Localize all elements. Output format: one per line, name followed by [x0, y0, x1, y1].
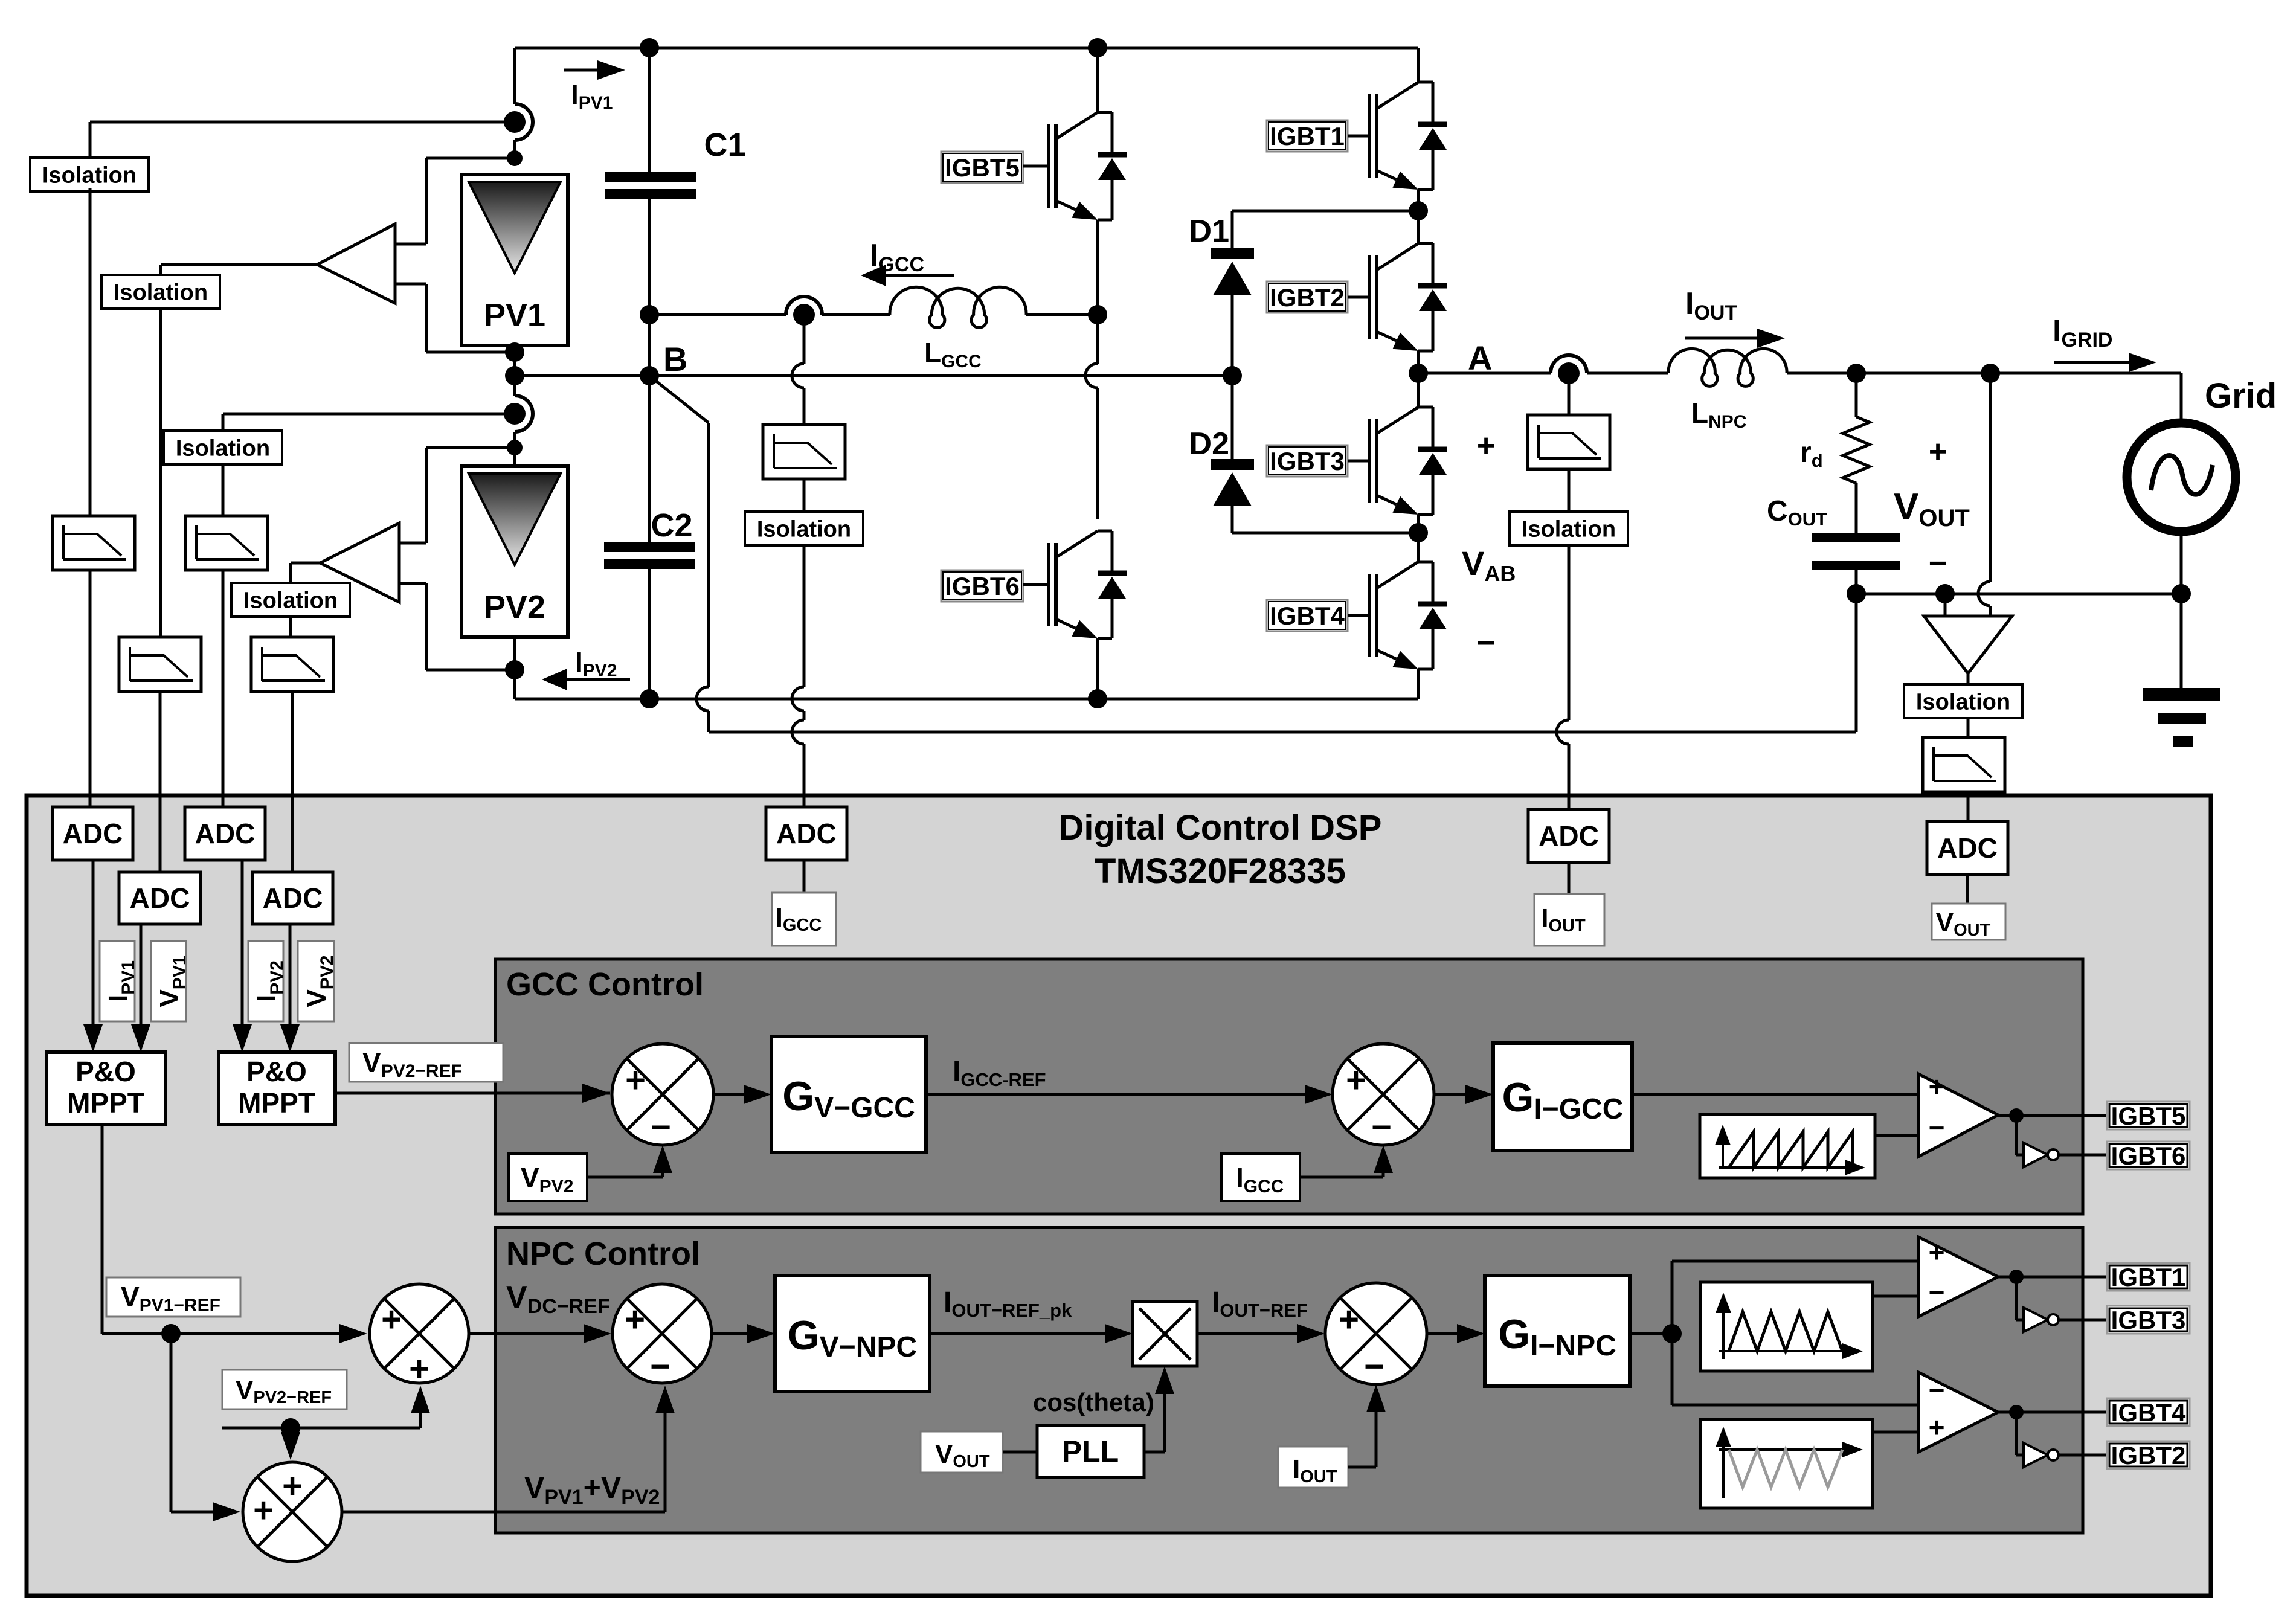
svg-text:+: +	[1339, 1300, 1359, 1339]
svg-text:−: −	[1929, 546, 1947, 581]
svg-text:IGBT5: IGBT5	[945, 153, 1020, 182]
svg-text:IGBT1: IGBT1	[1270, 122, 1345, 150]
svg-text:IGBT1: IGBT1	[2111, 1263, 2186, 1291]
svg-text:Isolation: Isolation	[1916, 689, 2010, 715]
svg-text:−: −	[1929, 1112, 1945, 1143]
svg-text:Isolation: Isolation	[243, 588, 338, 613]
svg-text:PLL: PLL	[1062, 1434, 1119, 1468]
svg-text:+: +	[625, 1061, 646, 1100]
svg-text:ADC: ADC	[1539, 820, 1599, 852]
svg-text:PV2: PV2	[484, 589, 545, 625]
svg-text:ADC: ADC	[63, 818, 123, 849]
svg-text:+: +	[253, 1491, 274, 1530]
svg-text:P&O: P&O	[246, 1056, 307, 1087]
svg-text:MPPT: MPPT	[238, 1087, 315, 1119]
svg-text:A: A	[1468, 339, 1492, 377]
svg-text:+: +	[1477, 428, 1495, 463]
svg-text:−: −	[1929, 1276, 1945, 1308]
svg-text:MPPT: MPPT	[67, 1087, 144, 1119]
svg-text:−: −	[650, 1347, 670, 1386]
svg-text:IGBT3: IGBT3	[2111, 1306, 2186, 1334]
svg-text:Grid: Grid	[2205, 376, 2277, 416]
svg-text:IGBT3: IGBT3	[1270, 447, 1345, 475]
svg-text:IGBT2: IGBT2	[1270, 283, 1345, 312]
svg-text:ADC: ADC	[1937, 832, 1998, 864]
svg-text:Isolation: Isolation	[757, 516, 851, 542]
svg-text:ADC: ADC	[776, 818, 837, 849]
svg-text:−: −	[1929, 1374, 1945, 1405]
svg-text:D1: D1	[1189, 214, 1229, 249]
svg-text:IGBT4: IGBT4	[1270, 602, 1345, 630]
svg-text:IGBT5: IGBT5	[2111, 1102, 2186, 1130]
svg-text:ADC: ADC	[195, 818, 256, 849]
svg-text:+: +	[282, 1466, 303, 1506]
svg-text:P&O: P&O	[76, 1056, 136, 1087]
svg-text:IGBT6: IGBT6	[2111, 1142, 2186, 1170]
svg-text:cos(theta): cos(theta)	[1033, 1388, 1154, 1416]
svg-text:+: +	[1346, 1061, 1366, 1100]
svg-text:+: +	[625, 1300, 645, 1339]
svg-text:IGBT2: IGBT2	[2111, 1441, 2186, 1470]
svg-text:IGBT6: IGBT6	[945, 572, 1020, 600]
svg-text:D2: D2	[1189, 426, 1229, 461]
svg-text:B: B	[663, 340, 687, 378]
svg-text:+: +	[409, 1349, 429, 1389]
svg-text:+: +	[1929, 1412, 1945, 1443]
svg-text:−: −	[1364, 1347, 1384, 1386]
svg-text:Isolation: Isolation	[114, 280, 208, 305]
svg-text:C1: C1	[704, 127, 745, 163]
svg-text:−: −	[1371, 1108, 1392, 1147]
svg-text:GCC Control: GCC Control	[506, 966, 704, 1003]
svg-text:PV1: PV1	[484, 297, 545, 333]
svg-text:+: +	[1929, 1071, 1945, 1102]
svg-text:Digital Control DSP: Digital Control DSP	[1059, 808, 1382, 847]
svg-text:NPC Control: NPC Control	[506, 1236, 700, 1272]
svg-text:−: −	[1477, 626, 1495, 661]
svg-text:ADC: ADC	[130, 882, 190, 914]
svg-text:IGBT4: IGBT4	[2111, 1398, 2186, 1427]
svg-text:+: +	[1929, 1236, 1945, 1268]
svg-text:Isolation: Isolation	[1522, 516, 1616, 542]
svg-text:+: +	[1929, 434, 1947, 469]
svg-text:Isolation: Isolation	[176, 435, 270, 461]
svg-text:ADC: ADC	[263, 882, 323, 914]
svg-text:Isolation: Isolation	[42, 162, 137, 188]
svg-text:TMS320F28335: TMS320F28335	[1095, 852, 1346, 891]
svg-text:C2: C2	[651, 507, 692, 544]
svg-text:+: +	[381, 1300, 402, 1339]
svg-text:−: −	[651, 1108, 671, 1147]
